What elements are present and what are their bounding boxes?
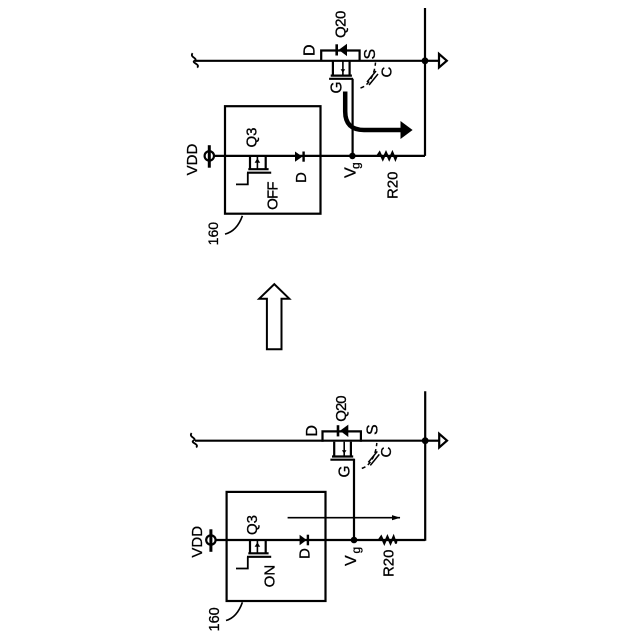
svg-text:D: D <box>297 548 314 559</box>
svg-text:g: g <box>349 162 363 169</box>
svg-text:R20: R20 <box>384 172 401 200</box>
svg-text:R20: R20 <box>381 550 398 578</box>
svg-text:VDD: VDD <box>189 526 206 558</box>
svg-text:C: C <box>379 67 396 78</box>
svg-text:S: S <box>365 424 382 435</box>
svg-text:OFF: OFF <box>265 182 282 210</box>
svg-text:160: 160 <box>207 607 223 631</box>
svg-text:S: S <box>362 49 379 60</box>
svg-text:160: 160 <box>205 222 221 246</box>
svg-text:D: D <box>293 172 310 183</box>
svg-text:V: V <box>343 555 360 566</box>
svg-text:Q20: Q20 <box>333 396 350 422</box>
svg-text:D: D <box>302 44 319 56</box>
svg-text:D: D <box>304 425 321 437</box>
svg-text:g: g <box>349 547 363 554</box>
svg-text:C: C <box>378 447 395 458</box>
svg-text:VDD: VDD <box>184 143 201 175</box>
svg-text:G: G <box>337 465 354 477</box>
svg-text:Q3: Q3 <box>244 127 261 147</box>
svg-text:Q3: Q3 <box>244 515 261 535</box>
svg-text:ON: ON <box>262 565 279 588</box>
svg-text:Q20: Q20 <box>333 11 350 38</box>
